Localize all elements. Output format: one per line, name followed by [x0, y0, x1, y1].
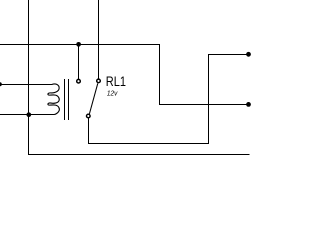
terminal dot mid right [246, 102, 251, 107]
relay coil RL1 loops [48, 84, 59, 115]
wire top vertical to NO contact [98, 0, 100, 79]
junction dot on top feed [76, 42, 81, 47]
svg-text:RL1: RL1 [106, 74, 126, 89]
wire switch common to upper right terminal [89, 55, 248, 144]
wire coil bottom lead [0, 114, 54, 116]
wire coil top lead [0, 84, 52, 86]
switch NC contact circle [77, 79, 81, 83]
wire top horizontal feed with right drop [0, 45, 248, 105]
junction dot on coil bottom lead [26, 112, 31, 117]
wire junction drop to NC contact [78, 45, 80, 80]
relay core bar 2 [68, 79, 69, 120]
terminal dot top right [246, 52, 251, 57]
svg-text:12v: 12v [107, 89, 118, 98]
switch blade [89, 83, 97, 114]
switch common contact circle [87, 114, 91, 118]
switch NO contact circle [97, 79, 101, 83]
relay core bar 1 [64, 79, 65, 120]
wire left vertical bus to bottom rail [29, 0, 250, 155]
terminal dot coil top lead left edge [0, 82, 2, 86]
